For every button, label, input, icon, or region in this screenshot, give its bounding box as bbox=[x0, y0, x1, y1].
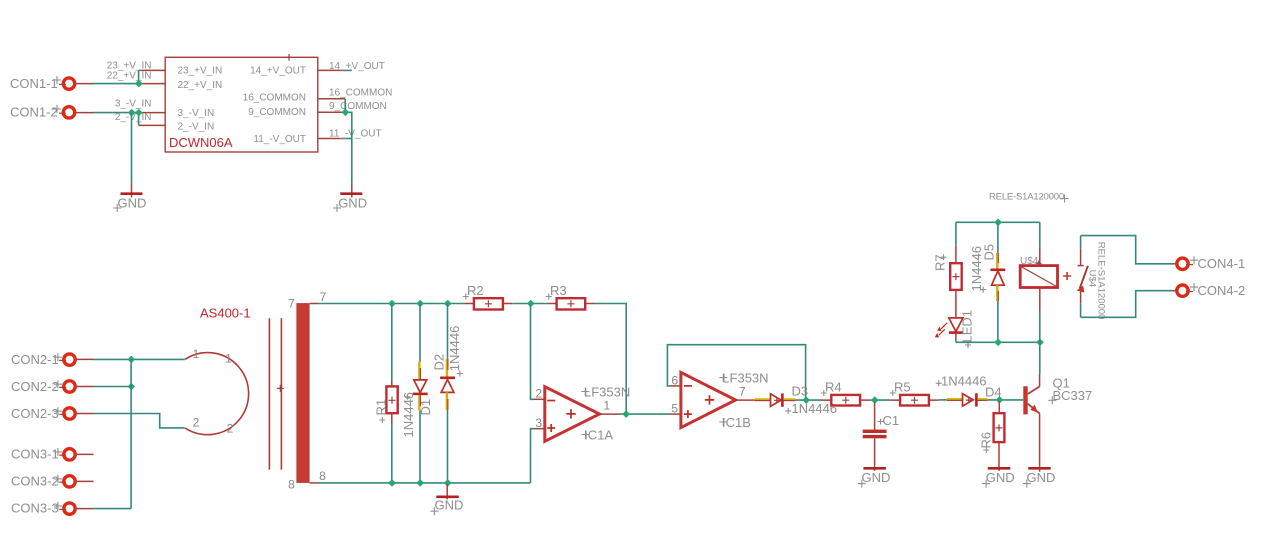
svg-text:AS400-1: AS400-1 bbox=[200, 306, 251, 321]
junction bbox=[128, 109, 136, 117]
svg-text:2_-V_IN: 2_-V_IN bbox=[178, 122, 215, 133]
diode D4 1N4446 bbox=[936, 373, 1002, 406]
svg-text:2: 2 bbox=[535, 387, 542, 401]
svg-text:CON3-3: CON3-3 bbox=[11, 501, 59, 516]
svg-text:IC1B: IC1B bbox=[722, 415, 751, 430]
resistor R1 bbox=[374, 304, 398, 483]
svg-text:9_COMMON: 9_COMMON bbox=[329, 101, 387, 112]
junction bbox=[128, 383, 136, 391]
svg-text:7: 7 bbox=[288, 296, 295, 310]
svg-text:16_COMMON: 16_COMMON bbox=[243, 93, 306, 104]
junction bbox=[135, 80, 143, 88]
svg-text:IC1A: IC1A bbox=[584, 427, 613, 442]
connector CON2-1 bbox=[11, 352, 93, 367]
ground GND C1 bbox=[858, 468, 891, 488]
svg-text:CON2-2: CON2-2 bbox=[11, 379, 59, 394]
U1 pin 3 -V_IN stub bbox=[115, 99, 214, 119]
U1 pin 16 COMMON stub bbox=[243, 87, 393, 103]
svg-text:CON1-1: CON1-1 bbox=[10, 76, 58, 91]
junction node rail D2 bbox=[444, 300, 452, 308]
op-amp IC1B LF353N bbox=[670, 371, 769, 430]
svg-text:D1: D1 bbox=[418, 399, 433, 416]
resistor R2 bbox=[463, 283, 513, 310]
relay origin cross bbox=[1063, 272, 1071, 280]
svg-text:1N4446: 1N4446 bbox=[941, 373, 987, 388]
power module U1 DCWN06A body bbox=[165, 54, 318, 152]
svg-text:CON2-3: CON2-3 bbox=[11, 406, 59, 421]
svg-text:14_+V_OUT: 14_+V_OUT bbox=[329, 61, 385, 72]
wire bottom rail to Q1 collector bbox=[1039, 342, 1041, 374]
svg-text:22_+V_IN: 22_+V_IN bbox=[178, 80, 223, 91]
svg-text:GND: GND bbox=[118, 196, 147, 211]
connector CON2-2 bbox=[11, 379, 93, 394]
svg-text:GND: GND bbox=[435, 498, 464, 513]
transformer T1 core bbox=[269, 318, 281, 469]
connector CON3-1 bbox=[11, 447, 94, 462]
svg-text:CON2-1: CON2-1 bbox=[11, 352, 59, 367]
wire D4 to Q1 base bbox=[988, 399, 1024, 401]
resistor R6 bbox=[979, 402, 1005, 468]
svg-text:6: 6 bbox=[671, 373, 678, 387]
svg-text:CON1-2: CON1-2 bbox=[10, 105, 58, 120]
diode D1 1N4446 bbox=[401, 304, 433, 483]
transformer T1 primary winding bbox=[185, 353, 249, 435]
ground GND R6 bbox=[982, 468, 1015, 488]
T1 pin 7 bbox=[288, 290, 327, 310]
svg-text:R1: R1 bbox=[374, 399, 389, 416]
svg-text:2: 2 bbox=[193, 416, 200, 430]
svg-text:8: 8 bbox=[319, 469, 326, 483]
resistor R3 bbox=[546, 283, 595, 310]
wire pin9 to right GND bbox=[345, 112, 352, 183]
svg-text:RELE-S1A120000: RELE-S1A120000 bbox=[1095, 242, 1106, 320]
svg-text:23_+V_IN: 23_+V_IN bbox=[178, 65, 223, 76]
junction node rail R1 bbox=[388, 300, 396, 308]
wire D3 to R4 bbox=[796, 399, 822, 401]
capacitor C1 bbox=[863, 402, 899, 468]
resistor R5 bbox=[890, 379, 939, 405]
svg-text:CON4-1: CON4-1 bbox=[1198, 256, 1246, 271]
svg-text:CON3-1: CON3-1 bbox=[11, 447, 59, 462]
svg-text:DCWN06A: DCWN06A bbox=[169, 135, 233, 150]
svg-text:3: 3 bbox=[535, 416, 542, 430]
svg-text:2: 2 bbox=[227, 422, 234, 436]
svg-text:9_COMMON: 9_COMMON bbox=[248, 107, 306, 118]
svg-text:LF353N: LF353N bbox=[722, 371, 768, 386]
wire CON3-3 to bus bbox=[93, 508, 131, 510]
junction node R3 left / IC1A pin2 bbox=[527, 300, 535, 308]
junction node rail D1 bbox=[416, 300, 424, 308]
junction bottom rail D5 bbox=[994, 339, 1002, 347]
svg-text:D2: D2 bbox=[432, 354, 447, 371]
wire IC1A pin3 to bottom rail bbox=[531, 429, 535, 483]
wire 23-22 link bbox=[138, 70, 140, 83]
junction D3 feedback node bbox=[802, 396, 810, 404]
U1 pin 11 -V_OUT stub bbox=[253, 128, 381, 145]
ground GND Q1 bbox=[1023, 468, 1056, 487]
wire bus CON2 to CON3-3 bbox=[130, 359, 132, 508]
svg-text:1: 1 bbox=[604, 399, 611, 413]
svg-text:14_+V_OUT: 14_+V_OUT bbox=[250, 66, 306, 77]
U1 pin 2 -V_IN stub bbox=[115, 112, 214, 132]
junction bbox=[135, 109, 143, 117]
wire CON1-1 to U1 bbox=[93, 83, 139, 85]
U1 pin 23 +V_IN stub bbox=[107, 60, 223, 76]
svg-text:1: 1 bbox=[193, 347, 200, 361]
svg-text:GND: GND bbox=[862, 470, 891, 485]
svg-text:R3: R3 bbox=[550, 283, 567, 298]
wire IC1B feedback loop bbox=[667, 345, 805, 400]
wire contact to CON4-1 bbox=[1081, 236, 1173, 264]
diode D5 1N4446 bbox=[969, 222, 1005, 342]
wire relay bottom rail bbox=[956, 341, 1040, 343]
transistor Q1 BC337 bbox=[1023, 374, 1092, 467]
junction bottom R1 bbox=[388, 479, 396, 487]
svg-text:U$4: U$4 bbox=[1020, 256, 1039, 267]
connector CON4-1 bbox=[1173, 256, 1246, 271]
ground GND right bbox=[333, 183, 367, 212]
svg-text:3_-V_IN: 3_-V_IN bbox=[178, 108, 215, 119]
svg-text:5: 5 bbox=[671, 402, 678, 416]
svg-text:GND: GND bbox=[986, 470, 1015, 485]
svg-text:C1: C1 bbox=[883, 413, 900, 428]
wire 3-2 link bbox=[138, 113, 140, 126]
junction IC1A output bbox=[622, 410, 630, 418]
wire R2R3 node to IC1A pin2 bbox=[531, 304, 535, 400]
svg-text:22_+V_IN: 22_+V_IN bbox=[107, 70, 152, 81]
svg-text:R6: R6 bbox=[979, 432, 994, 449]
svg-text:7: 7 bbox=[739, 385, 746, 399]
transformer T1 secondary winding bbox=[296, 303, 309, 483]
wire R2 to R3 bbox=[512, 303, 547, 305]
relay contact U$4 bbox=[1077, 236, 1107, 320]
svg-text:CON4-2: CON4-2 bbox=[1198, 283, 1246, 298]
U1 pin 22 +V_IN stub bbox=[107, 70, 223, 91]
svg-text:1N4446: 1N4446 bbox=[401, 392, 416, 438]
wire 16-9 link bbox=[344, 99, 346, 113]
wire CON2-3 to T1 pin2 bbox=[93, 414, 185, 428]
ground GND left bbox=[113, 183, 146, 212]
connector CON3-2 bbox=[11, 474, 94, 489]
wire R3 to output node (feedback) bbox=[595, 304, 627, 415]
wire IC1A out to IC1B pin5 bbox=[620, 413, 671, 415]
connector CON4-2 bbox=[1173, 283, 1246, 298]
connector CON1-2 bbox=[10, 105, 93, 120]
junction bottom rail coil/collector bbox=[1036, 339, 1044, 347]
svg-text:8: 8 bbox=[288, 478, 295, 492]
ground GND mid bbox=[430, 484, 463, 515]
U1 pin 14 +V_OUT stub bbox=[250, 61, 385, 77]
svg-text:LED1: LED1 bbox=[960, 310, 975, 343]
wire top rail from T1 pin7 bbox=[319, 303, 465, 305]
wire bottom rail from T1 pin8 bbox=[319, 482, 531, 484]
svg-text:RELE-S1A120000: RELE-S1A120000 bbox=[989, 192, 1064, 203]
svg-text:D3: D3 bbox=[792, 383, 809, 398]
svg-text:1N4446: 1N4446 bbox=[447, 326, 462, 372]
svg-text:R2: R2 bbox=[467, 283, 484, 298]
junction C1 tap bbox=[871, 396, 879, 404]
U1 pin 9 COMMON stub bbox=[248, 101, 387, 118]
svg-text:GND: GND bbox=[338, 196, 367, 211]
wire CON2-1 to T1 pin1 bbox=[93, 358, 185, 360]
wire CON1-2 to U1 bbox=[93, 112, 139, 114]
resistor R7 bbox=[932, 245, 961, 318]
wire R4 to R5 bbox=[870, 399, 890, 401]
junction bbox=[342, 109, 350, 117]
svg-text:11_-V_OUT: 11_-V_OUT bbox=[253, 134, 306, 145]
LED LED1 bbox=[935, 310, 975, 348]
wire to left GND bbox=[131, 113, 133, 183]
wire contact to CON4-2 bbox=[1081, 291, 1173, 318]
wire R5 to D4 bbox=[939, 399, 947, 401]
junction bottom D2 / GND tap bbox=[444, 479, 452, 487]
junction bbox=[128, 356, 136, 364]
diode D3 1N4446 bbox=[755, 383, 837, 416]
diode D2 1N4446 bbox=[432, 304, 463, 483]
svg-text:LF353N: LF353N bbox=[584, 384, 630, 399]
relay coil U$4 bbox=[1020, 222, 1058, 342]
svg-text:3_-V_IN: 3_-V_IN bbox=[115, 99, 152, 110]
junction R6 tap bbox=[996, 396, 1004, 404]
wire R7 branch top bbox=[955, 222, 957, 245]
svg-text:1: 1 bbox=[225, 352, 232, 366]
junction top rail D5 bbox=[994, 219, 1002, 227]
connector CON2-3 bbox=[11, 406, 93, 421]
svg-text:R5: R5 bbox=[894, 379, 911, 394]
svg-text:11_-V_OUT: 11_-V_OUT bbox=[329, 128, 382, 139]
wire CON2-2 to bus bbox=[93, 386, 131, 388]
wire relay top rail bbox=[956, 221, 1040, 223]
svg-text:GND: GND bbox=[1027, 470, 1056, 485]
T1 pin 8 bbox=[288, 469, 326, 492]
svg-text:CON3-2: CON3-2 bbox=[11, 474, 59, 489]
junction bottom D1 bbox=[416, 479, 424, 487]
svg-text:7: 7 bbox=[320, 290, 327, 304]
resistor R4 bbox=[821, 379, 870, 405]
op-amp IC1A LF353N bbox=[534, 384, 630, 442]
svg-text:R4: R4 bbox=[825, 379, 842, 394]
svg-text:BC337: BC337 bbox=[1053, 388, 1093, 403]
svg-text:1N4446: 1N4446 bbox=[969, 246, 984, 292]
connector CON3-3 bbox=[11, 501, 93, 516]
connector CON1-1 bbox=[10, 76, 93, 91]
svg-text:16_COMMON: 16_COMMON bbox=[329, 87, 392, 98]
